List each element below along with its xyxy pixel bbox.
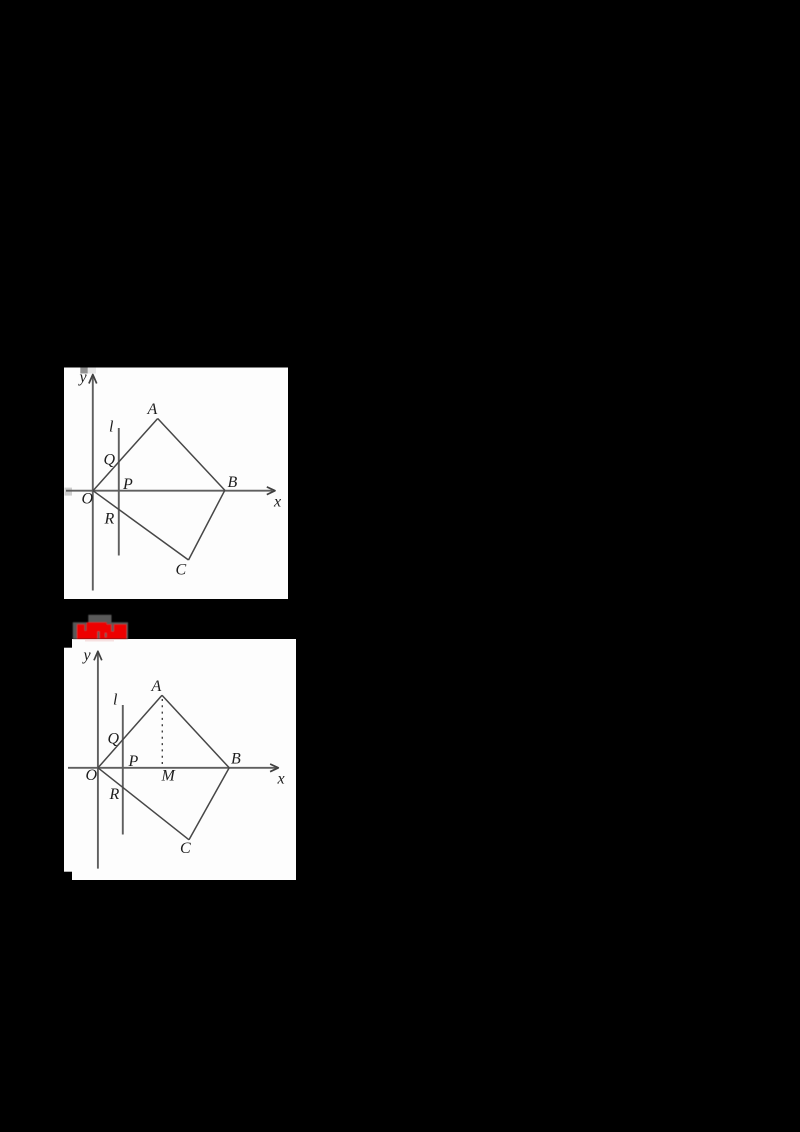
faint pink smear under label	[85, 639, 114, 641]
side BC (top figure)	[189, 490, 225, 560]
svg-text:P: P	[128, 753, 139, 770]
side AB (bottom figure)	[162, 695, 229, 768]
red label gray background	[73, 622, 128, 639]
svg-text:B: B	[228, 474, 238, 491]
side CO (top figure)	[93, 491, 189, 560]
red label bump above	[87, 622, 107, 626]
svg-text:P: P	[122, 476, 133, 493]
svg-text:R: R	[109, 786, 120, 803]
svg-text:x: x	[273, 494, 281, 511]
red label gray slits	[85, 624, 114, 639]
line l (bottom figure)	[122, 705, 124, 835]
x-axis (top figure)	[66, 490, 273, 492]
x-axis (bottom figure)	[68, 767, 276, 769]
svg-text:l: l	[109, 419, 114, 436]
side BC (bottom figure)	[189, 768, 229, 840]
svg-text:O: O	[86, 767, 98, 784]
x-axis arrowhead (bottom figure)	[270, 764, 278, 772]
svg-text:M: M	[161, 768, 177, 785]
svg-text:A: A	[151, 678, 162, 695]
svg-text:y: y	[82, 647, 92, 664]
side OA (top figure)	[93, 419, 158, 491]
red label text band	[77, 624, 127, 639]
bottom white panel (left strip)	[64, 648, 72, 872]
side OA (bottom figure)	[98, 695, 162, 768]
gray block above red label	[88, 615, 111, 623]
dotted altitude AM (bottom figure)	[161, 699, 163, 766]
svg-text:x: x	[277, 771, 285, 788]
svg-text:l: l	[113, 692, 118, 709]
y-axis (top figure)	[92, 376, 94, 591]
y-axis arrowhead (top figure)	[89, 375, 97, 384]
x-axis arrowhead (top figure)	[267, 487, 275, 495]
y-axis arrowhead (bottom figure)	[94, 651, 102, 660]
svg-text:Q: Q	[104, 452, 116, 469]
top white panel	[64, 368, 288, 600]
side CO (bottom figure)	[98, 768, 189, 840]
line l (top figure)	[118, 428, 120, 556]
svg-text:C: C	[180, 840, 191, 857]
svg-text:B: B	[231, 751, 241, 768]
svg-text:y: y	[78, 369, 88, 386]
svg-text:C: C	[176, 562, 187, 579]
svg-text:R: R	[104, 511, 115, 528]
svg-text:Q: Q	[108, 731, 120, 748]
decorative gray squares top panel	[80, 368, 88, 374]
y-axis (bottom figure)	[97, 653, 99, 869]
svg-text:A: A	[147, 401, 158, 418]
side AB (top figure)	[158, 419, 225, 491]
svg-text:O: O	[82, 491, 94, 508]
bottom white panel (main)	[72, 639, 296, 880]
